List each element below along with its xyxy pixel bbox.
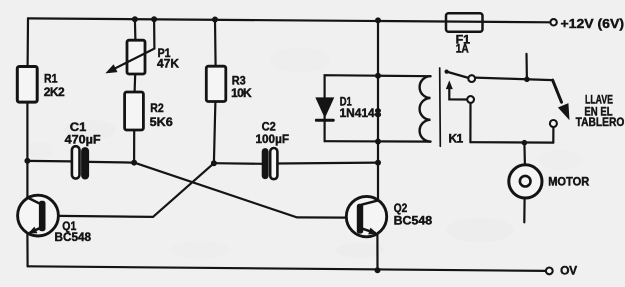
svg-text:BC548: BC548	[394, 213, 433, 227]
svg-text:K1: K1	[449, 132, 464, 146]
svg-text:100µF: 100µF	[256, 132, 290, 146]
svg-text:470µF: 470µF	[65, 132, 101, 146]
svg-text:47K: 47K	[157, 57, 179, 71]
svg-text:R1: R1	[44, 71, 58, 85]
svg-text:1A: 1A	[456, 41, 469, 55]
svg-text:BC548: BC548	[55, 230, 92, 244]
svg-text:5K6: 5K6	[150, 115, 174, 129]
svg-text:1N4148: 1N4148	[340, 106, 382, 120]
svg-text:MOTOR: MOTOR	[548, 176, 590, 188]
svg-text:OV: OV	[560, 263, 577, 277]
svg-text:R2: R2	[150, 101, 164, 115]
svg-text:+12V (6V): +12V (6V)	[561, 16, 625, 31]
svg-text:2K2: 2K2	[44, 85, 65, 99]
svg-text:10K: 10K	[231, 86, 252, 100]
svg-text:TABLERO: TABLERO	[576, 115, 625, 129]
